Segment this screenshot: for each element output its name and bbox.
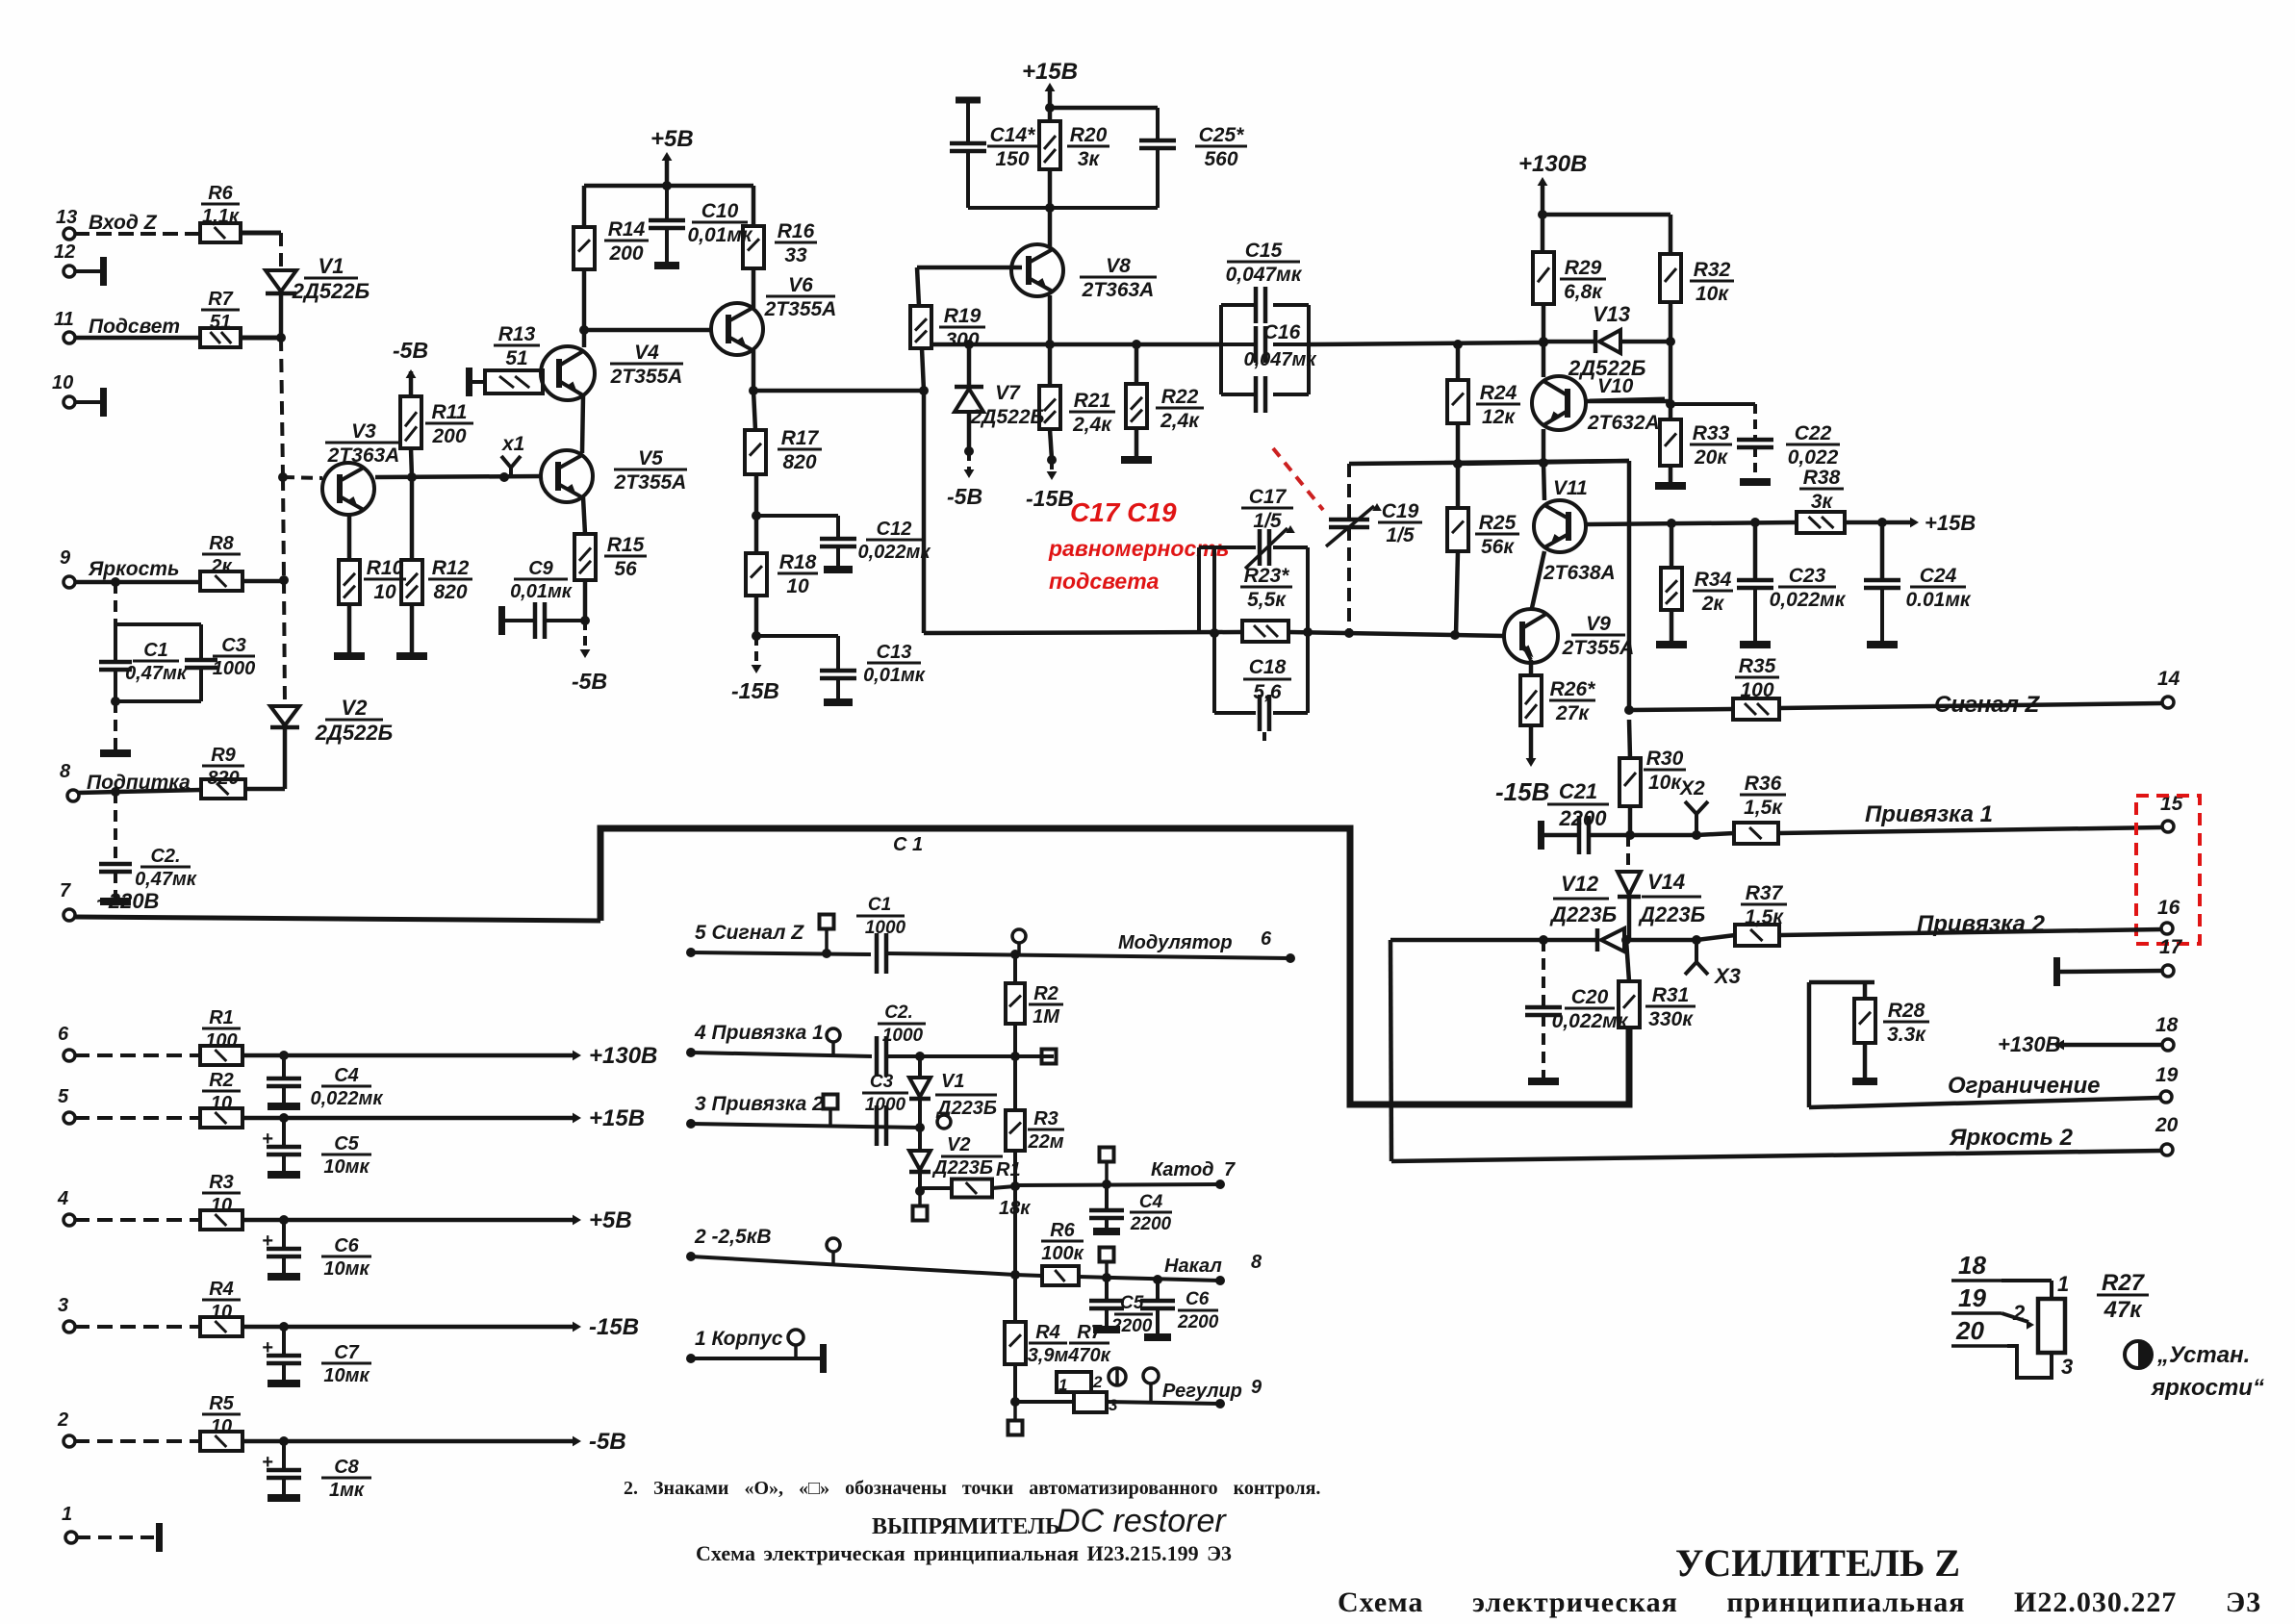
terminal 12 <box>64 266 75 277</box>
svg-text:10мк: 10мк <box>323 1258 370 1280</box>
wire R15 to C9 node <box>583 580 588 621</box>
terminal 13 (Вход Z) <box>64 228 75 240</box>
svg-text:V8: V8 <box>1106 255 1131 277</box>
capacitor C23 0,022мк <box>1753 522 1758 579</box>
transistor V11 2Т638А <box>1543 463 1544 500</box>
svg-text:5 Сигнал Z: 5 Сигнал Z <box>695 922 804 944</box>
svg-text:C1: C1 <box>143 640 168 661</box>
svg-text:подсвета: подсвета <box>1049 569 1160 594</box>
inset control square Накал <box>1100 1248 1114 1262</box>
wire R13 to V4 base <box>541 376 543 381</box>
wire 3 to R4 <box>74 1325 200 1329</box>
svg-text:R29: R29 <box>1565 257 1602 279</box>
wire V10 base to R32 column <box>1586 399 1670 404</box>
svg-text:200: 200 <box>608 242 643 265</box>
chassis stub for R13 <box>466 368 472 396</box>
resistor R32 10к <box>1543 213 1670 217</box>
node V3 base <box>278 472 288 482</box>
svg-text:0,022мк: 0,022мк <box>1770 589 1847 611</box>
potentiometer R27 47к <box>2038 1299 2065 1353</box>
terminal 2 <box>64 1435 75 1447</box>
wire V10 emitter <box>1542 429 1546 463</box>
resistor R9 820 <box>201 779 245 799</box>
svg-text:0.01мк: 0.01мк <box>1905 589 1971 611</box>
resistor R33 20к <box>1660 419 1681 466</box>
transistor V9 2Т355А <box>1504 609 1558 663</box>
node V14/R31 <box>1621 935 1631 945</box>
capacitor C18 5,6 <box>1258 695 1262 731</box>
svg-text:V9: V9 <box>1586 613 1611 635</box>
svg-text:Регулир: Регулир <box>1162 1381 1242 1402</box>
svg-text:+5В: +5В <box>650 126 694 152</box>
resistor R26* 27к <box>1520 675 1542 725</box>
svg-text:1,1к: 1,1к <box>202 206 240 227</box>
wire to C22 <box>1670 402 1755 406</box>
transistor V4 2Т355А <box>541 346 595 400</box>
ground below C13 <box>824 698 853 706</box>
capacitor C2 0,47мк <box>114 792 117 862</box>
ground below C6 <box>268 1273 300 1281</box>
wire 19 to R27 wiper 2 <box>2002 1313 2028 1322</box>
capacitor C1 0,47мк <box>114 624 117 662</box>
terminal 18 <box>2162 1039 2174 1051</box>
svg-text:13: 13 <box>56 207 77 228</box>
wire to V8 collector <box>1048 208 1053 246</box>
wire R10 to ground <box>347 604 352 652</box>
svg-text:2Д522Б: 2Д522Б <box>292 279 370 303</box>
svg-text:C4: C4 <box>334 1065 359 1086</box>
svg-text:R23*: R23* <box>1244 565 1290 587</box>
svg-text:C21: C21 <box>1559 779 1597 803</box>
wire to C13 <box>756 634 838 638</box>
svg-text:V3: V3 <box>351 420 376 443</box>
capacitor C20 0,022мк <box>1542 940 1545 1005</box>
inset line 4 Привязка 1 <box>686 1048 696 1057</box>
svg-text:2к: 2к <box>210 556 232 577</box>
svg-text:V12: V12 <box>1561 872 1599 896</box>
svg-text:R36: R36 <box>1745 773 1782 795</box>
svg-text:Накал: Накал <box>1164 1256 1222 1277</box>
svg-text:Схема электрическая принципи: Схема электрическая принципиальная И23.2… <box>696 1541 1232 1565</box>
Яркость 2 line <box>1390 940 1391 1161</box>
node +15В <box>1045 103 1055 113</box>
Ограничение line to terminal 19 <box>1809 1098 2160 1107</box>
wire R7 to V1 node <box>241 336 281 341</box>
svg-text:R6: R6 <box>208 183 233 204</box>
inset line 3 Привязка 2 <box>686 1119 696 1129</box>
svg-text:6,8к: 6,8к <box>1564 281 1603 303</box>
terminal 19 <box>2160 1091 2172 1103</box>
svg-text:12: 12 <box>54 241 75 263</box>
terminal 7 (~220В) <box>64 909 75 921</box>
svg-text:3,9м: 3,9м <box>1028 1345 1069 1366</box>
svg-text:R10: R10 <box>367 557 404 579</box>
svg-text:x1: x1 <box>501 433 524 455</box>
svg-text:C3: C3 <box>221 635 246 656</box>
svg-text:+15В: +15В <box>1925 511 1976 535</box>
svg-text:Подсвет: Подсвет <box>89 316 180 338</box>
resistor R16 33 <box>743 226 764 268</box>
transistor V8 2Т363А <box>1011 244 1063 296</box>
svg-text:2 -2,5кВ: 2 -2,5кВ <box>694 1226 772 1248</box>
svg-text:16: 16 <box>2157 897 2180 919</box>
svg-text:0,047мк: 0,047мк <box>1244 349 1317 370</box>
inset resistor R3 22м <box>1013 1056 1017 1110</box>
svg-text:2: 2 <box>1092 1373 1103 1391</box>
wire V6 emitter to R19 column <box>753 389 924 393</box>
svg-text:Д223Б: Д223Б <box>1549 902 1617 926</box>
inset wire C2 to node <box>886 1054 1054 1058</box>
svg-text:-15В: -15В <box>589 1314 639 1340</box>
wire V6 emitter down <box>752 350 756 391</box>
inset control circle Регулир <box>1143 1368 1159 1383</box>
node V1/R7 <box>276 333 286 343</box>
svg-text:2Д522Б: 2Д522Б <box>315 721 393 745</box>
svg-text:10: 10 <box>786 575 809 597</box>
wire V8 emitter <box>1048 295 1053 344</box>
wire V11 emitter to V9 <box>1532 551 1544 608</box>
svg-text:R9: R9 <box>211 745 236 766</box>
inset ground below C5 <box>1093 1326 1120 1333</box>
svg-text:+5В: +5В <box>589 1207 632 1233</box>
terminal 15 <box>2162 821 2174 832</box>
diode V7 2Д522Б <box>964 340 974 349</box>
svg-text:C2.: C2. <box>884 1002 913 1023</box>
wire V6 base <box>584 328 712 333</box>
svg-text:C6: C6 <box>334 1235 359 1256</box>
resistor R21 2,4к <box>1048 344 1053 386</box>
svg-text:2,4к: 2,4к <box>1072 414 1112 436</box>
inset resistor R2 1М <box>1013 954 1017 983</box>
svg-text:Вход Z: Вход Z <box>89 212 158 234</box>
svg-text:+15В: +15В <box>1022 59 1078 85</box>
inset control circle line 2 <box>827 1238 840 1252</box>
svg-text:ВЫПРЯМИТЕЛЬ: ВЫПРЯМИТЕЛЬ <box>872 1514 1060 1539</box>
svg-text:2Т355А: 2Т355А <box>614 471 687 494</box>
inset control square line 3 <box>824 1095 838 1109</box>
svg-text:R17: R17 <box>781 427 820 449</box>
svg-text:470к: 470к <box>1067 1345 1110 1366</box>
wire ~220В to bus corner <box>74 917 600 921</box>
svg-text:3к: 3к <box>1811 491 1834 513</box>
svg-text:2Т363А: 2Т363А <box>1082 279 1155 301</box>
wire 6 to R1 <box>74 1053 200 1057</box>
svg-text:C17: C17 <box>1249 486 1288 508</box>
ground below C2 <box>100 898 131 905</box>
terminal 14 <box>2162 697 2174 708</box>
inset Регулир line <box>1015 1400 1074 1404</box>
resistor R2 10 <box>200 1108 242 1128</box>
inset capacitor C3 1000 <box>875 1105 880 1146</box>
C1/C3 block top wire <box>114 582 117 624</box>
svg-text:3: 3 <box>1109 1396 1118 1414</box>
node Сигнал Z <box>1624 705 1634 715</box>
dashed wire R7-node down to V3 base node <box>281 338 283 477</box>
svg-text:R14: R14 <box>608 218 646 241</box>
ground below C22 <box>1740 478 1771 486</box>
wire R12 to ground <box>410 604 415 652</box>
svg-text:6: 6 <box>1261 928 1272 950</box>
svg-text:1: 1 <box>62 1504 72 1525</box>
svg-text:22м: 22м <box>1027 1131 1063 1153</box>
svg-text:R38: R38 <box>1803 467 1841 489</box>
svg-text:R22: R22 <box>1161 386 1199 408</box>
wire R6 to V1 node <box>241 231 281 236</box>
svg-text:Модулятор: Модулятор <box>1118 932 1233 953</box>
-15В feed below R18 <box>754 636 758 668</box>
svg-text:Яркость: Яркость <box>88 558 179 580</box>
svg-text:5,5к: 5,5к <box>1247 589 1287 611</box>
svg-text:C17 C19: C17 C19 <box>1070 497 1177 527</box>
wire down to R23 node line <box>922 391 927 633</box>
resistor R18 10 <box>754 516 759 553</box>
transistor V10 2Т632А <box>1542 342 1546 377</box>
svg-text:2: 2 <box>2012 1301 2026 1325</box>
svg-text:0,022мк: 0,022мк <box>311 1088 384 1109</box>
wire 4 to R3 <box>74 1218 200 1222</box>
svg-text:3: 3 <box>58 1295 68 1316</box>
resistor R11 200 <box>400 396 421 448</box>
svg-text:2Т355А: 2Т355А <box>764 298 837 320</box>
resistor R38 3к <box>1797 512 1845 533</box>
resistor R19 300 <box>910 306 931 348</box>
wire V3 emitter <box>347 515 352 560</box>
inset line 2 -2,5кВ <box>686 1252 696 1261</box>
svg-text:2к: 2к <box>1701 593 1725 615</box>
svg-text:V1: V1 <box>941 1071 964 1092</box>
dashed wire down to R8 node <box>283 477 284 580</box>
terminal 16 <box>2161 923 2173 934</box>
svg-text:2200: 2200 <box>1559 806 1608 830</box>
svg-text:20к: 20к <box>1694 446 1728 469</box>
wire 10 stub <box>74 400 100 404</box>
svg-text:V10: V10 <box>1597 375 1634 397</box>
resistor R7 51 <box>200 328 241 347</box>
svg-text:-15В: -15В <box>1495 777 1549 806</box>
-5В feed below R15 <box>583 621 587 650</box>
resistor R17 820 <box>745 430 766 474</box>
svg-text:Яркость 2: Яркость 2 <box>1949 1125 2074 1151</box>
svg-text:3.3к: 3.3к <box>1887 1024 1926 1046</box>
wire V11 base line to R38 <box>1587 522 1797 524</box>
chassis stub at 10 <box>100 388 107 417</box>
svg-text:4: 4 <box>57 1188 68 1209</box>
jog wire to node line <box>1199 546 1214 549</box>
svg-text:R7: R7 <box>1077 1322 1102 1343</box>
svg-text:R8: R8 <box>209 533 234 554</box>
inset capacitor C4 2200 <box>1105 1184 1109 1209</box>
svg-text:820: 820 <box>782 451 816 473</box>
svg-text:18: 18 <box>2155 1014 2179 1036</box>
node C2 tap <box>111 787 120 797</box>
svg-text:C24: C24 <box>1920 565 1957 587</box>
resistor R12 820 <box>401 560 422 604</box>
svg-text:56к: 56к <box>1481 536 1515 558</box>
wire 20 to R27 pin 3 <box>2007 1346 2052 1378</box>
wire R38 to +15В <box>1845 520 1913 525</box>
transistor V5 2Т355А <box>541 450 593 502</box>
wire 5 to R2 <box>74 1116 200 1120</box>
terminal 11 (Подсвет) <box>64 332 75 343</box>
wire R16 to V6 collector <box>752 268 756 308</box>
red dashed pointer <box>1273 448 1323 510</box>
node R33/C22 <box>1669 342 1673 419</box>
svg-text:17: 17 <box>2159 936 2183 958</box>
svg-text:R34: R34 <box>1695 569 1732 591</box>
resistor R31 330к <box>1626 940 1629 981</box>
svg-text:10: 10 <box>211 1093 232 1114</box>
Привязка 2 line from bus <box>1390 938 1543 943</box>
svg-text:C19: C19 <box>1382 500 1419 522</box>
wire R19 bottom <box>922 348 924 391</box>
svg-text:-5В: -5В <box>393 338 428 363</box>
ground below R22 <box>1121 456 1152 464</box>
svg-text:1/5: 1/5 <box>1253 510 1282 532</box>
emitter line y482 <box>1349 461 1629 464</box>
inset ground below C6 <box>1144 1333 1171 1341</box>
resistor R28 3.3к <box>1863 982 1868 999</box>
+15В feed arrow <box>1048 87 1053 108</box>
svg-text:C7: C7 <box>334 1342 359 1363</box>
svg-text:R21: R21 <box>1074 390 1111 412</box>
svg-text:2Т355А: 2Т355А <box>1562 637 1635 659</box>
svg-text:2: 2 <box>57 1409 68 1431</box>
svg-text:Д223Б: Д223Б <box>931 1157 993 1179</box>
terminal 1 stub <box>65 1532 77 1543</box>
ground below C12 <box>824 566 853 573</box>
wire V4-V5 <box>582 396 583 453</box>
svg-text:R4: R4 <box>1035 1322 1060 1343</box>
svg-text:100к: 100к <box>1041 1243 1084 1264</box>
resistor R13 51 <box>485 370 543 393</box>
wire R5 to rail -5В <box>242 1439 284 1444</box>
inset control circle line 4 <box>827 1028 840 1042</box>
resistor R10 10 <box>339 560 360 604</box>
svg-text:1М: 1М <box>1033 1006 1060 1028</box>
svg-text:56: 56 <box>614 558 637 580</box>
svg-text:6: 6 <box>58 1024 69 1045</box>
svg-text:10к: 10к <box>1648 772 1682 794</box>
ground below C7 <box>268 1380 300 1387</box>
thick bus ~220В loop around DC-restorer inset <box>600 828 1629 1104</box>
wire R14 to V4 collector <box>582 269 587 347</box>
svg-text:R25: R25 <box>1479 512 1517 534</box>
wire to C12 <box>756 514 838 518</box>
ground below C5 <box>268 1171 300 1179</box>
svg-text:R12: R12 <box>432 557 470 579</box>
svg-text:Д223Б: Д223Б <box>1638 902 1705 926</box>
svg-text:-5В: -5В <box>947 484 982 509</box>
svg-text:9: 9 <box>60 547 71 569</box>
svg-text:~220В: ~220В <box>96 889 160 913</box>
resistor R1 100 <box>200 1046 242 1065</box>
inset control circle at V2 <box>937 1115 951 1129</box>
inset capacitor C2 1000 <box>875 1036 880 1077</box>
resistor R23* 5,5к <box>1242 621 1288 642</box>
ground below R12 <box>396 652 427 660</box>
svg-text:C13: C13 <box>877 642 912 663</box>
inset wire C1 to Модулятор <box>886 953 1289 958</box>
terminal 5 <box>64 1112 75 1124</box>
inset node V1/V2 <box>915 1123 925 1132</box>
svg-text:19: 19 <box>1958 1283 1986 1312</box>
svg-text:1/5: 1/5 <box>1386 524 1415 546</box>
svg-text:С 1: С 1 <box>893 834 923 855</box>
svg-text:330к: 330к <box>1648 1008 1694 1030</box>
svg-text:51: 51 <box>505 347 527 369</box>
wire R2 to rail +15В <box>242 1116 284 1121</box>
inset diode V2 Д223Б <box>918 1128 922 1151</box>
wire R11 to base line <box>411 448 412 477</box>
svg-text:C12: C12 <box>877 519 912 540</box>
svg-text:8: 8 <box>1251 1252 1262 1273</box>
svg-text:X3: X3 <box>1713 964 1741 988</box>
+5В feed arrow <box>665 156 670 186</box>
svg-text:7: 7 <box>1224 1159 1236 1180</box>
wire R8 to dashed node <box>242 579 284 584</box>
svg-text:10: 10 <box>211 1302 232 1323</box>
inset capacitor C1 1000 <box>875 933 880 974</box>
resistor R4 10 <box>200 1317 242 1336</box>
svg-text:C2.: C2. <box>150 846 180 867</box>
svg-text:0,047мк: 0,047мк <box>1226 264 1303 286</box>
svg-text:1,5к: 1,5к <box>1744 797 1783 819</box>
svg-text:1: 1 <box>1058 1376 1067 1394</box>
svg-text:1 Корпус: 1 Корпус <box>695 1328 783 1350</box>
R28 branch box <box>1809 980 1874 985</box>
diode V13 2Д522Б <box>1543 340 1594 344</box>
svg-text:1000: 1000 <box>882 1026 924 1046</box>
svg-text:1000: 1000 <box>865 918 906 938</box>
svg-text:R18: R18 <box>779 551 817 573</box>
svg-text:10: 10 <box>211 1195 232 1216</box>
corner down to signal node <box>1627 461 1632 710</box>
inset ground below C4 <box>1093 1228 1120 1235</box>
svg-text:V2: V2 <box>342 696 369 720</box>
svg-text:150: 150 <box>995 148 1029 170</box>
wire Привязка 2 to terminal 16 <box>1779 929 2162 935</box>
svg-text:R37: R37 <box>1746 882 1784 904</box>
svg-text:10к: 10к <box>1696 283 1729 305</box>
terminal 17 with stub <box>2053 957 2060 986</box>
svg-text:C18: C18 <box>1249 656 1287 678</box>
terminal 9 (Яркость) <box>64 576 75 588</box>
ground below C10 <box>654 262 679 269</box>
svg-text:R28: R28 <box>1888 1000 1925 1022</box>
svg-text:C25*: C25* <box>1199 124 1245 146</box>
inset control circle on line 5 <box>1012 929 1026 943</box>
+5В rail <box>584 184 753 189</box>
svg-text:47к: 47к <box>2104 1297 2144 1323</box>
resistor R34 2к <box>1670 523 1674 568</box>
svg-text:R5: R5 <box>209 1393 234 1414</box>
svg-text:V5: V5 <box>638 447 663 469</box>
svg-text:R32: R32 <box>1694 259 1731 281</box>
wire 18 to R27 pin 1 <box>2002 1279 2052 1282</box>
svg-text:C20: C20 <box>1571 986 1609 1008</box>
resistor R37 1,5к <box>1696 935 1735 940</box>
wire R18 to C13 node <box>754 596 759 636</box>
svg-text:3: 3 <box>2061 1355 2073 1379</box>
svg-text:10: 10 <box>211 1416 232 1437</box>
wire R31 to bus bottom <box>1627 1028 1632 1104</box>
svg-text:18: 18 <box>1958 1251 1986 1280</box>
wire 2 to R5 <box>74 1439 200 1443</box>
capacitor C8 1мк <box>282 1441 286 1468</box>
capacitor C19 1/5 (variable) <box>1347 464 1351 520</box>
svg-text:Привязка 2: Привязка 2 <box>1917 911 2046 937</box>
wire to X2 <box>1630 833 1696 838</box>
